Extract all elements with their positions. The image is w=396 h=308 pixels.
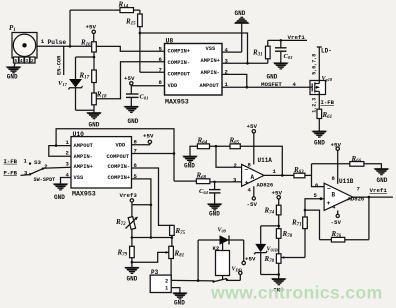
svg-text:GND: GND (128, 118, 139, 125)
wire R81 wiper return (132, 252, 165, 262)
junction C64 (213, 181, 216, 184)
svg-text:VDD: VDD (232, 267, 243, 273)
svg-text:1: 1 (41, 38, 45, 45)
svg-text:P-FB: P-FB (4, 169, 18, 176)
svg-text:U11A: U11A (258, 157, 273, 164)
svg-text:AMPIN+: AMPIN+ (201, 58, 220, 64)
svg-text:R61: R61 (322, 111, 333, 120)
wire AMPIN+ pin3 (222, 62, 268, 64)
ground (R64) (183, 146, 197, 169)
resistor R66 (350, 155, 364, 166)
svg-text:V17: V17 (58, 80, 68, 87)
wire VSS pin4 to ground (61, 178, 72, 185)
wire Pulse to COMPIN+ pin5 (96, 46, 164, 51)
svg-text:+5V: +5V (245, 256, 256, 263)
svg-text:2: 2 (234, 162, 238, 169)
connector P3 (150, 269, 171, 293)
resistor R15 (125, 10, 142, 27)
wire Pulse net (37, 45, 92, 47)
wire COMPIN+ pin5 U10 down (132, 179, 151, 238)
wire AMPOUT pin1 to AMPIN- pin2 (buffer loop) (49, 146, 71, 157)
junction gate drive (246, 86, 249, 89)
svg-text:P1: P1 (9, 24, 16, 33)
svg-text:Vref1: Vref1 (370, 187, 388, 194)
wire COMPOUT pin7 U10 (132, 153, 175, 155)
wire divider row (132, 237, 172, 239)
wire R64 to R65 (210, 145, 231, 147)
svg-text:B: B (332, 192, 336, 199)
connector P1 (9, 24, 37, 58)
power +5V (relay) (242, 240, 256, 265)
svg-text:MAX953: MAX953 (72, 190, 96, 197)
svg-text:GND: GND (184, 163, 195, 170)
svg-text:R18: R18 (96, 91, 107, 100)
junction zener tap (93, 56, 96, 59)
wire R68 to non-inverting input U11A (210, 181, 242, 183)
resistor R16 (80, 39, 96, 53)
svg-text:Vg18: Vg18 (322, 76, 333, 82)
zener V17 (58, 57, 83, 110)
svg-text:R81: R81 (174, 250, 185, 259)
transistor Q1 MOSFET (310, 81, 326, 95)
svg-text:-5V: -5V (331, 219, 342, 226)
svg-text:3: 3 (66, 160, 70, 167)
svg-text:LD-: LD- (321, 48, 332, 55)
ground (313, 131, 327, 137)
relay contact lever (212, 279, 240, 283)
svg-text:GND: GND (89, 121, 100, 128)
wire divider to inverting input U11A (216, 146, 242, 167)
svg-text:U10: U10 (73, 131, 85, 138)
wire R18 tap to COMPIN- pin6 (96, 62, 164, 99)
svg-text:+5V: +5V (86, 24, 97, 31)
potentiometer R72 (115, 217, 138, 238)
svg-text:GND: GND (7, 74, 18, 81)
svg-text:4: 4 (248, 187, 252, 194)
svg-text:7: 7 (134, 148, 137, 155)
svg-text:1: 1 (165, 285, 168, 291)
resistor R78 (276, 229, 292, 254)
svg-text:R79: R79 (117, 249, 128, 258)
resistor R79 (117, 238, 135, 268)
svg-text:U8: U8 (166, 38, 174, 45)
junction pin3 (246, 62, 249, 65)
svg-text:VSS: VSS (206, 46, 216, 52)
svg-text:R31: R31 (252, 49, 263, 58)
svg-text:R72: R72 (115, 218, 126, 227)
wire AMPOUT loop to comparator (long link) (56, 129, 174, 181)
wire COMPIN- pin6 U10 to R75 (132, 168, 172, 225)
wire U11A output (264, 174, 294, 176)
op-amp U11A AD826 (233, 157, 277, 194)
svg-text:VSS: VSS (74, 175, 84, 181)
svg-text:7: 7 (357, 186, 360, 193)
wire P3 pin1 to ground (171, 288, 180, 293)
svg-text:2: 2 (31, 58, 34, 64)
svg-text:R70: R70 (264, 255, 275, 264)
svg-text:GND: GND (267, 74, 278, 81)
wire to zener V17 (76, 56, 95, 58)
capacitor C64 (199, 182, 221, 204)
resistor R17 (79, 70, 97, 83)
svg-text:AMPIN-: AMPIN- (201, 70, 220, 76)
svg-text:1: 1 (273, 168, 277, 175)
svg-text:+5V: +5V (124, 75, 135, 82)
svg-text:AMPOUT: AMPOUT (200, 83, 220, 89)
power +5V (VDD U8) (124, 75, 165, 94)
svg-text:I-FB: I-FB (321, 99, 335, 106)
svg-text:V01B: V01B (267, 247, 278, 253)
junction hysteresis rail (139, 32, 142, 35)
svg-text:VDD: VDD (116, 143, 126, 149)
svg-text:AMPOUT: AMPOUT (74, 143, 94, 149)
svg-text:2: 2 (44, 163, 48, 170)
junction pin5 node (304, 209, 307, 212)
svg-text:S3: S3 (34, 159, 41, 166)
wire top rail (70, 9, 140, 11)
resistor R61 (317, 109, 332, 131)
ground (87, 113, 101, 119)
svg-text:R16: R16 (80, 39, 91, 48)
resistor R71 (291, 210, 307, 257)
resistor R68 (174, 172, 210, 184)
svg-text:AMPIN+: AMPIN+ (74, 164, 93, 170)
wire P1 to ground (14, 63, 15, 67)
resistor R64 (197, 137, 210, 149)
svg-text:GND: GND (377, 177, 388, 184)
svg-text:8: 8 (159, 79, 163, 86)
switch S3 SW-SPDT (29, 159, 55, 183)
wire R63 to U11B inverting (305, 174, 312, 176)
svg-text:AD826: AD826 (257, 182, 274, 189)
svg-text:GND: GND (127, 276, 138, 283)
power -5V (U11A) (247, 186, 258, 208)
svg-text:8: 8 (248, 161, 252, 168)
wire U11B output Vref1 (353, 196, 393, 198)
ground (54, 184, 68, 190)
junction feedback to pin2 (215, 145, 218, 148)
resistor R65 (229, 137, 241, 149)
wire Vref1 net (268, 39, 307, 41)
svg-text:2: 2 (66, 150, 70, 157)
svg-text:1: 1 (66, 139, 70, 146)
svg-text:+: + (245, 180, 249, 187)
svg-text:U11B: U11B (339, 178, 354, 185)
svg-text:4: 4 (20, 58, 23, 64)
svg-text:R74: R74 (264, 207, 275, 216)
svg-text:EN-COR: EN-COR (57, 55, 63, 75)
svg-text:GND: GND (209, 211, 220, 218)
node Vref3 (120, 192, 138, 205)
wire AMPIN- pin2 to AMPOUT (222, 74, 247, 87)
power -5V (U11B) (331, 210, 342, 226)
ground (375, 169, 389, 175)
wire source to R61 (318, 91, 320, 109)
svg-text:V09: V09 (218, 228, 227, 234)
wire zener row (198, 239, 244, 241)
potentiometer R81 (165, 246, 184, 258)
svg-text:GND: GND (235, 10, 246, 17)
wire to R66 (312, 163, 350, 165)
wire relay coil left (197, 240, 199, 281)
wire switch common to AMPIN+ pin3 (43, 167, 71, 168)
wire COMPOUT pin7 (140, 71, 165, 73)
svg-text:MAX953: MAX953 (165, 99, 189, 106)
power +5V (U11A) (247, 123, 258, 164)
svg-text:1: 1 (24, 158, 28, 165)
ground (208, 204, 222, 210)
ground (173, 293, 187, 299)
wire R76 right riser (368, 197, 370, 240)
wire R15 bottom to COMPOUT pin7 (139, 27, 141, 73)
junction output/feedback (281, 174, 284, 177)
wire R81 bottom to P3 (170, 259, 172, 281)
svg-text:+5V: +5V (143, 133, 154, 140)
power +5V (R16 pullup) (86, 24, 97, 42)
wire Vref3 down to R72 (131, 205, 133, 218)
junction R76 left riser (320, 197, 323, 200)
resistor R63 (293, 166, 305, 178)
power +5V (VDD U10) (132, 133, 154, 145)
zener V09 (218, 228, 230, 245)
svg-text:R75: R75 (175, 227, 186, 236)
ground (272, 279, 286, 285)
resistor R31 (252, 40, 270, 63)
junction pin1 (55, 144, 58, 147)
junction R76 right riser (368, 196, 371, 199)
svg-text:Vref3: Vref3 (120, 192, 138, 199)
svg-text:R71: R71 (291, 219, 302, 228)
wire P-FB (21, 174, 31, 177)
wire R16 to R17 (93, 52, 95, 70)
wire zener bottom to R18 bottom (76, 105, 95, 110)
P1 pins 5,4,3,2 (14, 57, 36, 64)
wire R66 to ground (364, 164, 382, 169)
wire to R76 (305, 210, 320, 240)
svg-text:R78: R78 (282, 230, 293, 239)
svg-text:−: − (327, 186, 331, 193)
wire to zener V01B (261, 225, 279, 227)
svg-text:SW-SPDT: SW-SPDT (34, 177, 56, 183)
junction C83 (280, 39, 283, 42)
svg-text:Vref1: Vref1 (288, 34, 306, 41)
svg-text:COMPOUT: COMPOUT (107, 154, 130, 160)
potentiometer R70 (264, 254, 285, 279)
op-amp U10 MAX953 (66, 131, 138, 198)
wire to ground (93, 110, 95, 113)
junction zener branch (277, 225, 280, 228)
svg-text:AMPIN-: AMPIN- (74, 154, 93, 160)
svg-text:C83: C83 (284, 53, 294, 60)
svg-text:3: 3 (25, 58, 28, 64)
svg-text:VDD: VDD (168, 83, 178, 89)
ground (7, 67, 21, 73)
ground (274, 63, 288, 69)
wire Vref3 to pin5 (132, 204, 151, 206)
svg-text:A: A (251, 174, 255, 181)
svg-text:5,6,7,8: 5,6,7,8 (311, 54, 317, 75)
svg-text:Pulse: Pulse (48, 39, 67, 46)
svg-text:-5V: -5V (247, 201, 258, 208)
op-amp U8 MAX953 (159, 38, 229, 106)
power +5V (divider) (272, 190, 283, 206)
relay coil K2 (213, 239, 230, 280)
node VDD (232, 267, 243, 281)
wire R17 to R18 (93, 83, 95, 94)
svg-text:GND: GND (314, 139, 325, 146)
ground (VSS U8) (235, 10, 249, 52)
resistor R76 (320, 230, 369, 242)
junction COMPOUT U10 (173, 152, 176, 155)
svg-text:R15: R15 (125, 18, 136, 27)
wire zener return (261, 274, 279, 276)
svg-text:+5V: +5V (272, 190, 283, 197)
junction pin5 drop (150, 204, 153, 207)
capacitor C81 (126, 94, 148, 107)
svg-text:C64: C64 (199, 188, 209, 195)
svg-text:R17: R17 (79, 72, 90, 81)
svg-text:COMPIN-: COMPIN- (168, 60, 191, 66)
svg-text:GND: GND (174, 300, 185, 307)
svg-text:www.cntronics.com: www.cntronics.com (210, 282, 383, 302)
wire LD- drain (318, 47, 320, 84)
resistor R18 (92, 91, 107, 105)
wire U11B non-inverting input (305, 199, 324, 210)
power +5V (U11B) (331, 142, 342, 184)
resistor R14 (118, 1, 134, 13)
junction Pulse/feedback (69, 45, 72, 48)
ground (125, 107, 139, 113)
resistor R75 (170, 225, 186, 246)
capacitor C83 (275, 40, 293, 63)
svg-text:COMPIN+: COMPIN+ (108, 175, 131, 181)
svg-text:6: 6 (315, 182, 319, 189)
svg-text:COMPOUT: COMPOUT (168, 71, 191, 77)
wire R70 wiper to R71 (285, 257, 306, 259)
wire P3 pin2 (171, 279, 213, 282)
wire rail to AMPIN+ (140, 33, 248, 63)
svg-text:GND: GND (54, 194, 65, 201)
resistor R74 (264, 205, 282, 229)
op-amp U11B AD826 (314, 175, 365, 211)
svg-text:+5V: +5V (247, 123, 258, 130)
svg-text:COMPIN+: COMPIN+ (168, 48, 191, 54)
wire AMPOUT pin1 to gate (222, 86, 310, 88)
wire EN-COR stub (63, 46, 65, 75)
ground (125, 268, 139, 274)
svg-text:I-FB: I-FB (4, 158, 18, 165)
svg-text:C81: C81 (140, 94, 149, 101)
zener V01B (254, 226, 278, 275)
wire VSS pin4 (222, 51, 242, 53)
svg-text:8: 8 (332, 175, 336, 182)
svg-text:2: 2 (165, 278, 168, 284)
svg-text:3: 3 (233, 177, 237, 184)
wire feedback left riser (69, 10, 71, 46)
svg-text:COMPIN-: COMPIN- (108, 164, 131, 170)
wire feedback to output (240, 146, 282, 175)
svg-text:+: + (327, 200, 331, 207)
